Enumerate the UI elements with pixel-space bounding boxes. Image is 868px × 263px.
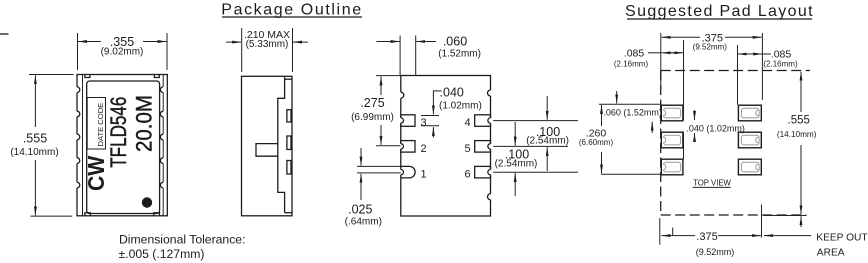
svg-text:.555: .555 xyxy=(788,115,810,127)
dimension .375 bottom xyxy=(660,205,762,257)
svg-text:KEEP OUT: KEEP OUT xyxy=(816,233,867,244)
svg-text:.275: .275 xyxy=(360,96,384,110)
layout pad B2 (right mid) xyxy=(738,132,761,148)
svg-text:.040: .040 xyxy=(440,86,464,100)
front view outer body xyxy=(77,75,167,216)
dimension .100 upper xyxy=(493,96,578,171)
svg-text:.060: .060 xyxy=(443,34,467,48)
svg-text:(2.16mm): (2.16mm) xyxy=(763,60,798,69)
label KEEP OUT AREA xyxy=(764,233,868,259)
svg-text:.025: .025 xyxy=(348,203,372,217)
pad 4 xyxy=(475,115,492,127)
svg-text:(.64mm): (.64mm) xyxy=(345,217,382,228)
pad 6 xyxy=(475,166,492,178)
dimension .040 bottom view xyxy=(421,86,482,138)
title Suggested Pad Layout xyxy=(625,3,814,20)
svg-text:DATE CODE: DATE CODE xyxy=(96,103,105,147)
dimension .260 layout xyxy=(579,105,660,174)
svg-text:(2.54mm): (2.54mm) xyxy=(526,136,569,147)
layout pad C1 (left bottom) xyxy=(661,159,683,175)
pad 5 xyxy=(475,141,492,153)
svg-text:2: 2 xyxy=(421,143,427,155)
svg-text:.085: .085 xyxy=(624,48,645,60)
dimension .085 right xyxy=(738,49,798,69)
svg-text:20.0M: 20.0M xyxy=(132,95,157,152)
front view right castellations xyxy=(160,87,164,188)
svg-text:1: 1 xyxy=(421,169,427,181)
bottom view outline xyxy=(401,76,491,217)
pad numbers xyxy=(421,117,471,181)
dimensional tolerance note xyxy=(119,233,246,262)
svg-text:TOP VIEW: TOP VIEW xyxy=(693,179,731,188)
dimension .040 layout xyxy=(686,110,745,141)
svg-text:.555: .555 xyxy=(23,132,47,146)
side view pins xyxy=(287,110,291,174)
svg-text:(2.16mm): (2.16mm) xyxy=(614,60,649,69)
svg-text:Package Outline: Package Outline xyxy=(221,2,362,19)
dimension .060 bottom view xyxy=(376,34,481,75)
dimension .210 MAX xyxy=(226,28,308,72)
front view inner body xyxy=(87,81,160,214)
svg-text:.040 (1.02mm): .040 (1.02mm) xyxy=(686,124,745,134)
pad 1 (rounded) xyxy=(400,166,416,178)
pad 3 xyxy=(400,115,415,127)
svg-text:(9.52mm): (9.52mm) xyxy=(696,247,735,257)
pin1 dot xyxy=(142,197,152,207)
layout pad C2 (right bottom) xyxy=(738,159,761,175)
front view left castellations xyxy=(76,87,80,188)
svg-text:.060 (1.52mm): .060 (1.52mm) xyxy=(603,108,662,118)
svg-text:4: 4 xyxy=(465,117,471,129)
keep out area dashed outline xyxy=(661,71,810,216)
svg-text:(14.10mm): (14.10mm) xyxy=(777,130,817,139)
dimension .060 layout xyxy=(599,91,662,133)
scan artifact tick left edge xyxy=(0,33,9,35)
title Package Outline xyxy=(221,2,362,19)
dimension .275 xyxy=(351,76,401,146)
layout pad A2 (right top) xyxy=(738,105,761,121)
dimension .375 top xyxy=(662,32,762,51)
front view corner notches xyxy=(85,75,160,216)
label TOP VIEW xyxy=(693,179,732,188)
dimension .555 left xyxy=(10,75,73,217)
svg-text:(1.52mm): (1.52mm) xyxy=(438,49,481,60)
pad 2 xyxy=(400,141,415,153)
date code box xyxy=(87,98,105,150)
svg-text:5: 5 xyxy=(465,143,471,155)
dimension .555 layout xyxy=(763,72,816,227)
layout pad A1 (left top) xyxy=(661,105,683,121)
svg-text:Suggested Pad Layout: Suggested Pad Layout xyxy=(625,3,814,20)
svg-text:(6.60mm): (6.60mm) xyxy=(579,138,614,147)
svg-text:3: 3 xyxy=(421,117,427,129)
svg-text:6: 6 xyxy=(465,169,471,181)
svg-text:(9.02mm): (9.02mm) xyxy=(101,47,144,58)
svg-text:.375: .375 xyxy=(696,231,717,243)
dimension .025 xyxy=(345,148,401,228)
svg-text:(6.99mm): (6.99mm) xyxy=(351,112,394,123)
svg-text:TFLD546: TFLD546 xyxy=(107,97,132,168)
layout pad B1 (left mid) xyxy=(661,132,683,148)
dimension .100 lower xyxy=(493,122,578,196)
dimension .355 top xyxy=(78,33,168,70)
bottom view corner castellations xyxy=(400,90,492,200)
svg-text:Dimensional Tolerance:: Dimensional Tolerance: xyxy=(119,233,245,247)
svg-text:CW: CW xyxy=(83,156,109,191)
svg-text:AREA: AREA xyxy=(817,248,845,259)
svg-text:±.005 (.127mm): ±.005 (.127mm) xyxy=(119,247,205,261)
layout extension lines xyxy=(661,33,763,159)
side view seam flange xyxy=(256,144,278,157)
svg-text:(9.52mm): (9.52mm) xyxy=(693,43,728,52)
side view outline xyxy=(242,76,293,216)
svg-text:(1.02mm): (1.02mm) xyxy=(439,101,482,112)
svg-text:(14.10mm): (14.10mm) xyxy=(10,147,58,158)
svg-text:(5.33mm): (5.33mm) xyxy=(246,39,289,50)
svg-text:(2.54mm): (2.54mm) xyxy=(495,159,538,170)
dimension .085 left xyxy=(614,48,683,69)
